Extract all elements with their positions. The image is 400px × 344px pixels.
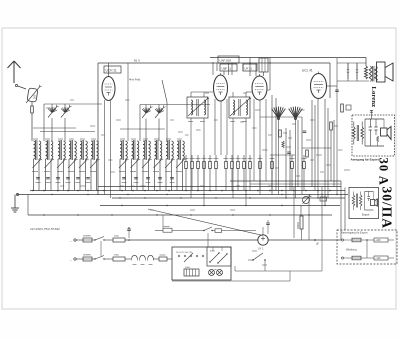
svg-text:5000: 5000 bbox=[114, 236, 120, 238]
svg-text:UBF 11: UBF 11 bbox=[222, 67, 232, 71]
svg-text:Lorenz: Lorenz bbox=[370, 87, 377, 108]
svg-text:Anregung für Export: Anregung für Export bbox=[351, 157, 379, 161]
svg-text:Export: Export bbox=[362, 214, 370, 217]
svg-text:UCH 11: UCH 11 bbox=[106, 69, 117, 73]
svg-text:30/ПА: 30/ПА bbox=[380, 187, 395, 230]
svg-text:UF 11: UF 11 bbox=[245, 67, 253, 71]
svg-text:UCL 41: UCL 41 bbox=[302, 69, 313, 73]
svg-text:~120: ~120 bbox=[375, 257, 381, 260]
svg-text:UY 1: UY 1 bbox=[258, 248, 264, 251]
svg-text:6000: 6000 bbox=[185, 267, 191, 269]
svg-text:SEMER: SEMER bbox=[83, 236, 91, 238]
svg-text:81 V: 81 V bbox=[134, 59, 140, 63]
svg-text:Netzeingang für Export: Netzeingang für Export bbox=[341, 231, 368, 235]
svg-text:5000: 5000 bbox=[114, 255, 120, 257]
svg-text:500: 500 bbox=[33, 94, 37, 99]
svg-text:30000: 30000 bbox=[297, 222, 300, 229]
svg-text:~: ~ bbox=[70, 258, 72, 262]
svg-text:4Hz Feld: 4Hz Feld bbox=[129, 78, 141, 82]
svg-text:2V=100/1,75/4,78-842: 2V=100/1,75/4,78-842 bbox=[29, 227, 60, 231]
svg-text:UAF 82A: UAF 82A bbox=[220, 59, 232, 63]
svg-text:~: ~ bbox=[70, 239, 72, 243]
svg-text:SEMER: SEMER bbox=[83, 255, 91, 257]
svg-text:~220: ~220 bbox=[375, 239, 381, 242]
svg-text:30 A: 30 A bbox=[377, 158, 391, 186]
svg-text:110 125 150 220: 110 125 150 220 bbox=[176, 252, 193, 254]
svg-text:Wicklung: Wicklung bbox=[346, 248, 357, 252]
